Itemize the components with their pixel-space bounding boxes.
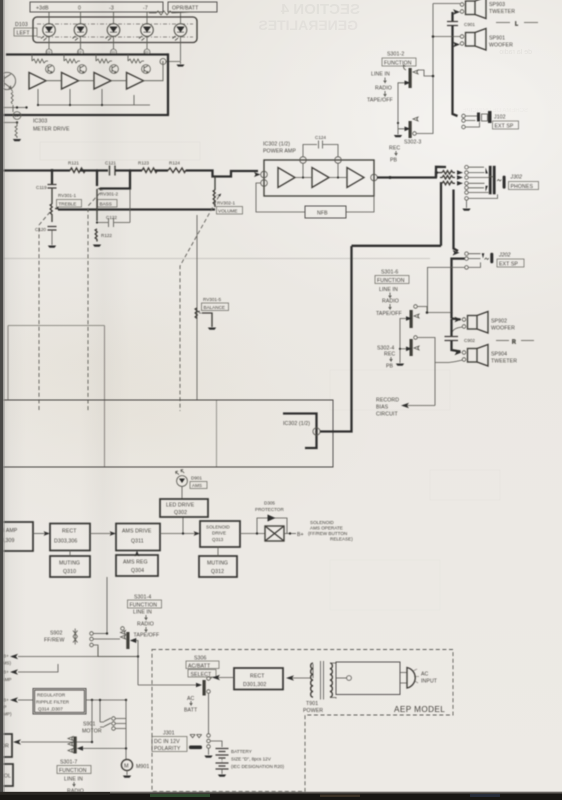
IC pin on bus bbox=[0, 112, 21, 124]
svg-text:PB: PB bbox=[386, 364, 394, 370]
tweeter feed arrow bbox=[453, 9, 460, 14]
svg-text:SP903: SP903 bbox=[489, 2, 505, 8]
svg-text:R: R bbox=[512, 340, 516, 346]
wires LEDs to IC pins bbox=[49, 36, 181, 61]
resistor R121 bbox=[68, 161, 86, 173]
switch S302-4 REC/PB bbox=[377, 336, 435, 406]
jack J302 PHONES contacts bbox=[465, 165, 469, 194]
svg-text:S901: S901 bbox=[83, 722, 96, 728]
wires from scale box to LEDs bbox=[49, 12, 147, 24]
svg-text:TAPE/OFF: TAPE/OFF bbox=[376, 311, 402, 317]
svg-text:RECT: RECT bbox=[62, 529, 77, 535]
pin 7 bbox=[160, 59, 181, 65]
main signal wire bbox=[0, 169, 70, 171]
svg-text:0: 0 bbox=[78, 6, 81, 12]
wire with arrow bbox=[90, 531, 116, 536]
B+ feed wire down bbox=[106, 577, 108, 634]
resistor R123 bbox=[138, 161, 158, 173]
jack J202 EXT SP bbox=[465, 252, 524, 269]
IC303 pins 13 12 11 10 bbox=[46, 49, 150, 55]
potentiometer RV301-1 TREBLE bbox=[50, 193, 81, 222]
wire bbox=[80, 169, 108, 171]
resistor row to contact 3 bbox=[440, 175, 463, 180]
svg-text:Q310: Q310 bbox=[63, 569, 76, 575]
branch to left box bbox=[13, 700, 93, 745]
switch S301-4 FUNCTION bbox=[121, 595, 162, 686]
supply rail down bbox=[125, 700, 127, 759]
svg-text:FUNCTION: FUNCTION bbox=[59, 768, 87, 774]
svg-text:EXT SP: EXT SP bbox=[499, 262, 518, 268]
svg-text:LINE IN: LINE IN bbox=[371, 72, 390, 78]
thick rail down to jack bbox=[453, 45, 458, 117]
svg-text:SCHEMA DE PRINCIPE: SCHEMA DE PRINCIPE bbox=[463, 108, 528, 114]
pin 9 bbox=[313, 428, 320, 435]
svg-text:BIAS: BIAS bbox=[376, 405, 389, 411]
regulator REGULATOR RIPPLE FILTER Q314,D307 bbox=[33, 689, 86, 715]
pin top1 bbox=[300, 157, 307, 164]
dash-dot rows inside LED box bbox=[37, 24, 193, 37]
svg-text:C121: C121 bbox=[105, 161, 116, 166]
potentiometer RV302-1 VOLUME bbox=[213, 177, 242, 215]
rectifier RECT D301,302 bbox=[210, 668, 283, 690]
capacitor C902 bbox=[445, 337, 476, 344]
AC line box bbox=[330, 662, 400, 699]
IC303 METER DRIVE label bbox=[33, 119, 70, 133]
wire LED to driver bbox=[182, 487, 183, 534]
resistor R122 bbox=[95, 229, 112, 242]
svg-text:Q311: Q311 bbox=[131, 539, 144, 545]
svg-text:C124: C124 bbox=[315, 135, 326, 140]
capacitor C901 bbox=[447, 22, 475, 28]
svg-text:S301-4: S301-4 bbox=[134, 595, 151, 601]
op-amp IC302 (1/2) second half bbox=[283, 414, 317, 449]
svg-text:R124: R124 bbox=[169, 161, 180, 166]
svg-text:RECORD: RECORD bbox=[376, 398, 399, 404]
speaker SP903 tweeter bbox=[460, 0, 515, 19]
svg-text:AMS OPERATE: AMS OPERATE bbox=[310, 526, 343, 531]
svg-text:TWEETER: TWEETER bbox=[489, 9, 515, 15]
solenoid note text bbox=[308, 520, 353, 542]
svg-text:S301-2: S301-2 bbox=[387, 52, 404, 58]
LED array box bbox=[33, 17, 197, 43]
op-amp IC302 (1/2) POWER AMP bbox=[263, 142, 374, 197]
svg-text:NFB: NFB bbox=[317, 211, 328, 217]
svg-text:C119: C119 bbox=[36, 185, 47, 190]
speaker SP904 tweeter bbox=[462, 345, 517, 367]
svg-text:POWER: POWER bbox=[303, 708, 323, 714]
meter drive stages: resistors bbox=[32, 55, 144, 64]
return wire J202 to switch bbox=[428, 267, 465, 312]
switch S306 AC/BATT SELECT bbox=[138, 656, 219, 714]
svg-text:SP904: SP904 bbox=[491, 352, 507, 358]
node wire y107 bbox=[0, 106, 28, 108]
svg-text:PROTECTOR: PROTECTOR bbox=[255, 507, 284, 512]
svg-text:AEP MODEL: AEP MODEL bbox=[394, 705, 445, 714]
svg-text:SOLENOID: SOLENOID bbox=[310, 520, 334, 525]
svg-text:REC: REC bbox=[384, 352, 395, 358]
LED D901 AMS bbox=[176, 470, 208, 489]
svg-text:LINE IN: LINE IN bbox=[64, 777, 83, 783]
thick bus right side down bbox=[0, 53, 169, 115]
partial box CONTROL (cut) bbox=[0, 764, 13, 786]
svg-text:DC IN 12V: DC IN 12V bbox=[154, 739, 180, 745]
thick wire treble wiper to volume bbox=[58, 208, 215, 210]
svg-text:FUNCTION: FUNCTION bbox=[377, 278, 405, 284]
riser from R amp bbox=[441, 183, 442, 246]
switch S301-7 FUNCTION bbox=[57, 737, 127, 795]
dark table edge band at bottom bbox=[0, 793, 562, 800]
svg-text:POWER AMP: POWER AMP bbox=[263, 149, 296, 155]
input transistor Q bbox=[0, 72, 16, 89]
svg-text:RIPPLE FILTER: RIPPLE FILTER bbox=[36, 700, 70, 705]
record bias circuit arrow bbox=[376, 398, 435, 418]
svg-text:-3: -3 bbox=[109, 6, 114, 12]
amp SOLENOID DRIVE Q313 bbox=[200, 521, 240, 547]
wire woofer to C902 bbox=[452, 327, 463, 335]
thick wire R amp y245 bbox=[352, 245, 442, 247]
svg-text:IC302 (1/2): IC302 (1/2) bbox=[283, 421, 310, 427]
svg-text:BALANCE: BALANCE bbox=[204, 305, 225, 310]
B+ arrow into regulator bbox=[10, 697, 33, 703]
amp stage triangle 3 bbox=[347, 168, 364, 188]
boundary line bbox=[0, 466, 333, 468]
svg-text:EXT SP: EXT SP bbox=[495, 124, 514, 130]
svg-text:Q302: Q302 bbox=[174, 510, 187, 516]
LED D103 x5 bbox=[41, 24, 187, 41]
svg-text:-7: -7 bbox=[143, 6, 148, 12]
svg-text:AC: AC bbox=[421, 672, 429, 678]
svg-text:D901: D901 bbox=[191, 476, 202, 481]
thick supply bus top bbox=[6, 53, 168, 55]
bias resistor to ground bbox=[15, 123, 17, 139]
svg-text:S301-7: S301-7 bbox=[60, 760, 77, 766]
diode D305 PROTECTOR bbox=[255, 501, 287, 534]
wire C901 to woofer bbox=[451, 26, 453, 45]
amp LED DRIVE Q302 bbox=[160, 499, 208, 517]
svg-text:RELEASE): RELEASE) bbox=[330, 537, 353, 542]
svg-text:RV301-5: RV301-5 bbox=[203, 297, 221, 302]
plug AC INPUT bbox=[400, 668, 438, 689]
motor M901 bbox=[121, 759, 149, 777]
wire with arrow bbox=[160, 531, 200, 536]
pin top2 bbox=[335, 157, 342, 164]
resistor row to contact 4 bbox=[442, 181, 463, 186]
svg-text:FF/REW: FF/REW bbox=[44, 638, 64, 644]
node out bbox=[389, 176, 392, 179]
svg-text:(IEC DESIGNATION R20): (IEC DESIGNATION R20) bbox=[231, 764, 284, 769]
node C bbox=[129, 169, 132, 172]
ground bbox=[13, 139, 21, 141]
svg-text:LEFT: LEFT bbox=[17, 31, 31, 37]
thick riser to R speakers bbox=[450, 313, 452, 319]
svg-text:BATTERY: BATTERY bbox=[231, 749, 252, 754]
svg-text:C122: C122 bbox=[106, 215, 117, 220]
battery bbox=[211, 741, 285, 777]
ghost bleed-through of reverse page bbox=[40, 1, 532, 610]
svg-text:LINE IN: LINE IN bbox=[133, 610, 152, 616]
svg-text:TAPE/OFF: TAPE/OFF bbox=[134, 633, 160, 639]
switch S901 MOTOR bbox=[82, 699, 126, 735]
wire with arrow bbox=[33, 531, 50, 536]
svg-text:MUTING: MUTING bbox=[59, 561, 80, 567]
svg-text:M: M bbox=[124, 764, 129, 770]
svg-text:S301-6: S301-6 bbox=[381, 270, 398, 276]
wire C902 to tweeter bbox=[452, 341, 461, 352]
svg-text:SECTION 4: SECTION 4 bbox=[280, 1, 360, 18]
svg-text:LED DRIVE: LED DRIVE bbox=[166, 503, 195, 509]
svg-text:RV302-1: RV302-1 bbox=[217, 201, 235, 206]
speaker SP901 woofer bbox=[460, 29, 513, 51]
thick wire pin9 to riser bbox=[320, 246, 352, 432]
L channel marker bbox=[496, 22, 538, 28]
svg-text:+3dB: +3dB bbox=[36, 6, 49, 12]
svg-text:POLARITY: POLARITY bbox=[154, 746, 181, 752]
svg-text:DRIVE: DRIVE bbox=[212, 531, 226, 536]
woofer feed arrow bbox=[455, 317, 462, 322]
transformer T901 POWER bbox=[303, 661, 332, 714]
wire to volume pot bbox=[186, 171, 258, 177]
svg-text:SOLENOID: SOLENOID bbox=[206, 525, 230, 530]
svg-text:D103: D103 bbox=[15, 22, 28, 28]
svg-text:C120: C120 bbox=[35, 227, 46, 232]
AEP model dashed boundary bbox=[152, 650, 453, 792]
svg-text:R121: R121 bbox=[68, 161, 79, 166]
tweeter return wire bbox=[435, 360, 463, 363]
rail wire bbox=[433, 4, 460, 132]
svg-text:REC: REC bbox=[389, 146, 400, 152]
svg-text:(FF/REW BUTTON: (FF/REW BUTTON bbox=[308, 531, 347, 536]
svg-text:Q304: Q304 bbox=[131, 568, 144, 574]
resistor R124 bbox=[168, 161, 186, 173]
svg-text:D305: D305 bbox=[264, 501, 275, 506]
svg-text:AMS: AMS bbox=[192, 483, 202, 488]
speaker SP902 woofer bbox=[462, 312, 515, 334]
svg-text:INPUT: INPUT bbox=[421, 679, 438, 685]
tape section boundary box bbox=[0, 400, 333, 467]
svg-text:PB: PB bbox=[390, 158, 398, 164]
OPR/BATT label box bbox=[168, 2, 217, 12]
sleeve contact and ground bbox=[462, 194, 497, 210]
svg-text:Q314 ,D307: Q314 ,D307 bbox=[38, 707, 63, 712]
jack J302 barrel bbox=[469, 166, 539, 195]
switch S301-2 FUNCTION bbox=[367, 52, 434, 124]
node B bbox=[96, 169, 99, 172]
svg-text:RADIO: RADIO bbox=[375, 86, 392, 92]
svg-text:RV301-2: RV301-2 bbox=[100, 192, 118, 197]
J202 feed arrow bbox=[453, 250, 460, 255]
svg-text:S306: S306 bbox=[194, 656, 207, 662]
svg-text:PHONES: PHONES bbox=[511, 184, 534, 190]
svg-text:WOOFER: WOOFER bbox=[489, 43, 513, 49]
svg-text:J301: J301 bbox=[163, 731, 175, 737]
amp AMS REG Q304 bbox=[116, 551, 158, 577]
thick wire amp out to phones bbox=[377, 176, 437, 178]
stub to contact 1 bbox=[436, 167, 446, 178]
partial box MOTOR (cut) bbox=[0, 734, 12, 757]
interstage wires bbox=[37, 62, 163, 107]
B+ AMS tap bbox=[0, 647, 138, 666]
svg-text:S902: S902 bbox=[50, 631, 63, 637]
potentiometer RV301-5 BALANCE bbox=[195, 297, 228, 327]
amp AMS DRIVE Q311 bbox=[116, 524, 160, 551]
svg-text:WOOFER: WOOFER bbox=[491, 326, 515, 332]
amp stage triangle 2 bbox=[312, 168, 329, 188]
wire transformer to rect bbox=[286, 675, 310, 681]
meter drive transistors bbox=[46, 65, 151, 74]
svg-text:R122: R122 bbox=[101, 233, 112, 238]
capacitor C122 bbox=[96, 189, 130, 227]
woofer feed arrow bbox=[453, 42, 460, 47]
scanner dark strip at left edge bbox=[0, 0, 3, 795]
node A bbox=[51, 169, 54, 172]
resistor row to contact 2 bbox=[436, 170, 463, 177]
svg-text:IC302 (1/2): IC302 (1/2) bbox=[263, 142, 290, 148]
solenoid winding bbox=[240, 526, 304, 541]
interstage wires bbox=[295, 163, 347, 178]
capacitor C120 bbox=[35, 227, 57, 246]
jack J301 DC IN 12V POLARITY bbox=[152, 694, 213, 758]
thick riser phones to J202 bbox=[454, 190, 459, 252]
ground bbox=[208, 328, 216, 330]
svg-text:RV301-1: RV301-1 bbox=[58, 193, 76, 198]
svg-text:C902: C902 bbox=[464, 338, 475, 343]
pin out bbox=[371, 174, 378, 181]
svg-text:B+: B+ bbox=[297, 532, 304, 538]
comparator op-amps x4 bbox=[29, 73, 144, 90]
ground bbox=[48, 246, 56, 248]
switch S302-3 REC/PB bbox=[389, 117, 433, 164]
svg-text:J202: J202 bbox=[498, 253, 511, 259]
svg-text:METER DRIVE: METER DRIVE bbox=[33, 127, 70, 133]
svg-text:RADIO: RADIO bbox=[137, 622, 154, 628]
svg-text:CIRCUIT: CIRCUIT bbox=[376, 412, 398, 418]
svg-text:MOTOR: MOTOR bbox=[82, 729, 102, 735]
svg-text:R123: R123 bbox=[138, 161, 149, 166]
svg-text:de la radio: de la radio bbox=[499, 49, 532, 56]
svg-text:REGULATOR: REGULATOR bbox=[37, 693, 66, 698]
R channel marker bbox=[496, 340, 534, 346]
thick wire tweeter down bbox=[451, 12, 453, 21]
svg-text:BASS: BASS bbox=[100, 202, 112, 207]
svg-text:L: L bbox=[515, 22, 518, 28]
svg-text:D303,306: D303,306 bbox=[54, 539, 77, 545]
svg-text:J102: J102 bbox=[494, 115, 506, 121]
thick wire J202 to R speakers bbox=[452, 259, 465, 313]
svg-text:AMS DRIVE: AMS DRIVE bbox=[122, 529, 152, 535]
link line solid bbox=[8, 326, 105, 468]
capacitor C119 bbox=[36, 169, 57, 204]
capacitor C124 bbox=[303, 135, 338, 157]
svg-text:SP902: SP902 bbox=[491, 319, 507, 325]
muting MUTING Q310 bbox=[50, 551, 90, 578]
svg-text:OPR/BATT: OPR/BATT bbox=[172, 6, 199, 12]
input arrow bbox=[254, 172, 261, 177]
svg-text:C901: C901 bbox=[464, 22, 475, 27]
svg-text:D301,302: D301,302 bbox=[243, 682, 266, 688]
svg-text:IC303: IC303 bbox=[33, 119, 47, 125]
svg-text:RECT: RECT bbox=[250, 674, 265, 680]
svg-text:GENERALITES: GENERALITES bbox=[258, 17, 358, 33]
amp PB AMP Q308,309 (cut) bbox=[0, 522, 33, 551]
jack J102 EXT SP bbox=[462, 111, 519, 130]
meter scale label box bbox=[30, 2, 163, 12]
svg-text:VOLUME: VOLUME bbox=[218, 209, 237, 214]
svg-text:BATT: BATT bbox=[184, 708, 198, 714]
mech link dashed bass bbox=[88, 193, 100, 411]
svg-text:SP901: SP901 bbox=[489, 36, 505, 42]
capacitor C121 bbox=[105, 161, 116, 176]
svg-text:S302-3: S302-3 bbox=[404, 140, 421, 146]
svg-text:LINE IN: LINE IN bbox=[379, 287, 398, 293]
svg-text:RADIO: RADIO bbox=[382, 299, 399, 305]
svg-text:TREBLE: TREBLE bbox=[59, 202, 77, 207]
mech link dashed treble bbox=[39, 212, 50, 411]
svg-text:MUTING: MUTING bbox=[207, 561, 228, 567]
emitter resistor bbox=[11, 89, 13, 113]
pin in- bbox=[261, 180, 268, 187]
wire bbox=[155, 169, 168, 171]
ground at pin7 bbox=[177, 65, 185, 67]
mech link dashed volume bbox=[180, 196, 219, 411]
svg-text:AC/BATT: AC/BATT bbox=[188, 664, 211, 670]
B+ labels cluster bbox=[0, 689, 12, 717]
tweeter feed arrow bbox=[455, 350, 462, 355]
svg-text:Q313: Q313 bbox=[212, 537, 224, 542]
wire rail to woofer bbox=[432, 35, 460, 38]
potentiometer RV301-2 BASS bbox=[97, 171, 118, 222]
svg-text:TWEETER: TWEETER bbox=[491, 359, 517, 365]
svg-text:SIZE "D", 8pcs 12V: SIZE "D", 8pcs 12V bbox=[231, 757, 272, 762]
pin in+ bbox=[261, 171, 268, 178]
resistor to OPR/BATT LED bbox=[149, 11, 192, 23]
link line solid balance bbox=[196, 215, 198, 400]
switch S301-6 FUNCTION bbox=[375, 270, 452, 364]
rectifier RECT D303,306 bbox=[50, 524, 90, 551]
bass feed elbow bbox=[100, 171, 130, 189]
svg-text:M901: M901 bbox=[136, 764, 149, 770]
NFB feedback box bbox=[256, 181, 374, 218]
ground bbox=[93, 245, 101, 247]
svg-text:T901: T901 bbox=[306, 701, 318, 707]
svg-text:FUNCTION: FUNCTION bbox=[384, 61, 412, 67]
B+ AMP tap bbox=[0, 664, 58, 682]
amp stage triangle 1 bbox=[278, 168, 295, 188]
svg-text:AMS REG: AMS REG bbox=[123, 560, 148, 566]
svg-text:Q312: Q312 bbox=[211, 569, 224, 575]
wire bbox=[115, 169, 142, 171]
switch S902 FF/REW bbox=[44, 629, 138, 657]
svg-text:FUNCTION: FUNCTION bbox=[130, 603, 158, 609]
D103 LEFT label bbox=[14, 22, 37, 37]
muting MUTING Q312 bbox=[199, 547, 237, 577]
svg-text:TAPE/OFF: TAPE/OFF bbox=[367, 98, 393, 104]
svg-text:J302: J302 bbox=[510, 175, 523, 181]
supply wire right of regulator bbox=[86, 699, 127, 701]
